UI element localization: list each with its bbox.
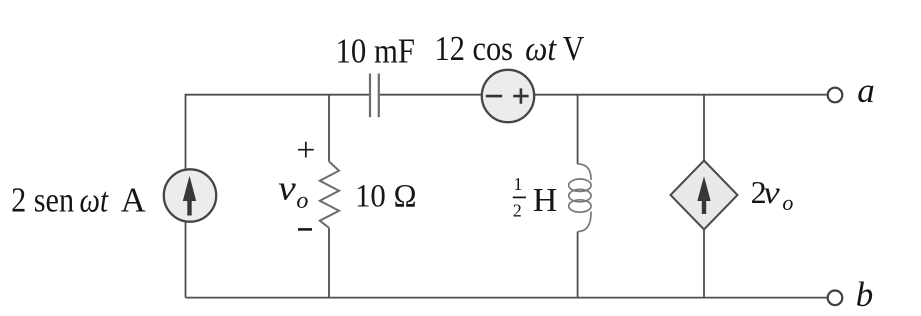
wire bottom segment bbox=[186, 297, 828, 299]
svg-text:v: v bbox=[278, 169, 296, 208]
wire dependent source branch lower bbox=[703, 229, 705, 298]
terminal b bbox=[828, 291, 843, 306]
svg-text:+: + bbox=[296, 132, 315, 169]
capacitor 10 mF bbox=[370, 74, 379, 118]
svg-text:ωt: ωt bbox=[80, 181, 110, 219]
label minus polarity bbox=[298, 228, 312, 231]
svg-text:12 cos: 12 cos bbox=[435, 30, 514, 68]
label 2vo bbox=[751, 174, 794, 215]
svg-text:10 mF: 10 mF bbox=[336, 32, 416, 70]
terminal a bbox=[828, 88, 843, 103]
wire resistor branch upper bbox=[328, 95, 330, 162]
svg-text:H: H bbox=[533, 182, 558, 219]
wire top right segment (source to terminal a) bbox=[534, 94, 826, 96]
wire top middle segment (capacitor to source) bbox=[379, 94, 482, 96]
current source 2 sen wt A bbox=[164, 169, 216, 221]
wire dependent source branch upper bbox=[703, 95, 705, 162]
wire resistor branch lower bbox=[328, 228, 330, 298]
svg-text:ωt: ωt bbox=[525, 30, 557, 68]
wire top-left segment bbox=[186, 94, 370, 96]
svg-text:2: 2 bbox=[513, 201, 522, 221]
label 2 sen wt A bbox=[11, 181, 146, 219]
resistor 10 ohm bbox=[320, 162, 339, 228]
svg-text:b: b bbox=[856, 275, 874, 314]
svg-text:V: V bbox=[563, 30, 585, 68]
svg-text:a: a bbox=[857, 71, 875, 110]
dependent source 2vo bbox=[671, 161, 738, 230]
label 12 cos wt V bbox=[435, 30, 585, 68]
wire left branch upper bbox=[185, 94, 187, 170]
wire inductor branch upper bbox=[577, 95, 579, 165]
label vo bbox=[278, 169, 308, 215]
svg-text:o: o bbox=[782, 190, 793, 215]
label 1/2 H bbox=[513, 174, 558, 221]
svg-text:2 sen: 2 sen bbox=[11, 181, 74, 219]
wire left branch lower bbox=[185, 222, 187, 298]
inductor 1/2 H bbox=[569, 164, 591, 232]
svg-text:A: A bbox=[121, 181, 146, 219]
svg-text:10 Ω: 10 Ω bbox=[355, 178, 417, 214]
wire inductor branch lower bbox=[577, 232, 579, 298]
svg-text:v: v bbox=[763, 174, 780, 210]
voltage source 12 cos wt V bbox=[482, 70, 534, 122]
svg-text:o: o bbox=[296, 188, 308, 214]
svg-text:1: 1 bbox=[514, 174, 523, 194]
